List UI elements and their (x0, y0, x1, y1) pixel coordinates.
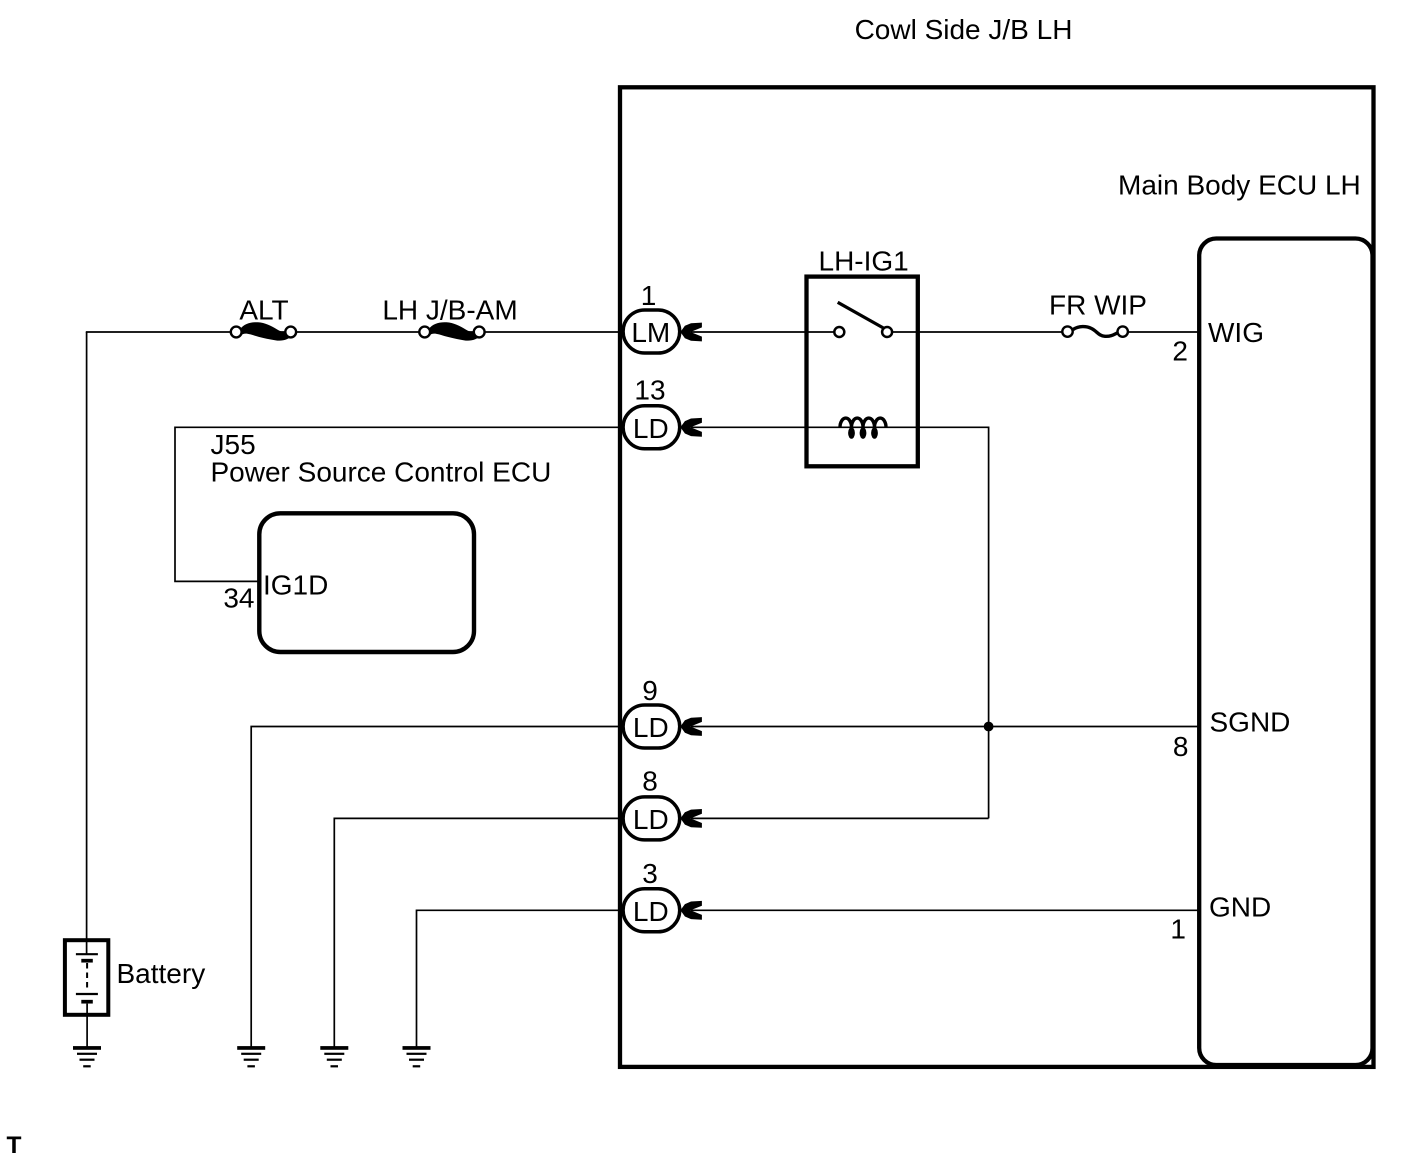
connector oval LD pin 9 (623, 705, 680, 748)
arrow into LD3 (680, 901, 702, 920)
wire: relay switch to FR WIP fuse (893, 331, 1063, 333)
svg-text:T: T (7, 1132, 22, 1159)
relay coil (840, 418, 886, 439)
arrow into LD9 (680, 717, 702, 736)
svg-text:GND: GND (1209, 891, 1271, 922)
svg-text:34: 34 (223, 583, 254, 614)
ECU box: Main Body ECU LH (1199, 239, 1372, 1066)
J55 ECU box IG1D (259, 513, 474, 652)
junction dot on SGND net (984, 722, 994, 732)
wire: battery positive vertical riser (86, 332, 88, 954)
relay LH-IG1 box (807, 277, 918, 467)
svg-text:ALT: ALT (239, 295, 288, 326)
svg-text:8: 8 (642, 766, 658, 797)
wire: LD pin 9 to ground (251, 727, 628, 1047)
svg-text:2: 2 (1172, 335, 1188, 366)
svg-text:8: 8 (1173, 731, 1189, 762)
relay switch contact left (834, 327, 844, 337)
wire: LD pin 3 to ground (417, 910, 629, 1046)
wire: LM pin 1 to relay switch contact (691, 331, 834, 333)
svg-text:LM: LM (631, 317, 670, 348)
relay switch blade (838, 302, 885, 328)
ground for LD9 wire (237, 1046, 265, 1067)
svg-text:13: 13 (634, 375, 665, 406)
svg-text:LH J/B-AM: LH J/B-AM (382, 295, 517, 326)
svg-text:Cowl Side J/B LH: Cowl Side J/B LH (855, 14, 1073, 45)
wire: main feed to LM pin 1 (86, 331, 628, 333)
wire: LD pin 8 to ground (334, 818, 628, 1046)
wire: FR WIP fuse to WIG pin 2 (1128, 331, 1199, 333)
svg-text:1: 1 (1170, 914, 1186, 945)
wire: LD pin 13 to relay coil and down to LD8 net (691, 427, 989, 818)
svg-text:FR WIP: FR WIP (1049, 290, 1147, 321)
svg-text:3: 3 (642, 858, 658, 889)
connector oval LD pin 8 (623, 797, 680, 840)
ground under battery (73, 1046, 101, 1067)
arrow into LD8 (680, 809, 702, 828)
svg-text:Battery: Battery (117, 958, 206, 989)
wire: SGND pin 8 to LD pin 9 (691, 726, 1199, 728)
fuse FR WIP (1062, 326, 1128, 336)
svg-text:Power Source Control ECU: Power Source Control ECU (211, 457, 552, 488)
svg-text:WIG: WIG (1208, 317, 1264, 348)
svg-text:LD: LD (633, 712, 669, 743)
fusible link ALT (231, 322, 296, 340)
svg-text:LD: LD (633, 804, 669, 835)
connector oval LD pin 3 (623, 889, 680, 932)
connector oval LD pin 13 (623, 406, 680, 449)
fusible link LH J/B-AM (419, 322, 484, 340)
relay switch contact right (882, 327, 892, 337)
wire: LD pin 8 branch to relay coil net (691, 817, 989, 819)
svg-text:LH-IG1: LH-IG1 (819, 246, 909, 277)
wire: LD pin 13 left to J55 IG1D pin 34 (175, 427, 628, 581)
connector oval LM pin 1 (623, 310, 680, 353)
arrow into LD13 (680, 418, 702, 437)
svg-text:SGND: SGND (1210, 707, 1291, 738)
svg-text:J55: J55 (211, 429, 256, 460)
arrow into LM (680, 323, 702, 342)
ground for LD3 wire (403, 1046, 431, 1067)
junction block box Cowl Side J/B LH (620, 87, 1374, 1067)
wire: GND pin 1 to LD pin 3 (691, 909, 1199, 911)
svg-text:9: 9 (642, 675, 658, 706)
ground for LD8 wire (320, 1046, 348, 1067)
svg-text:LD: LD (633, 896, 669, 927)
wire: battery negative to ground (86, 1004, 88, 1047)
svg-text:LD: LD (633, 413, 669, 444)
svg-text:Main Body ECU LH: Main Body ECU LH (1118, 170, 1361, 201)
svg-text:1: 1 (641, 280, 657, 311)
svg-text:IG1D: IG1D (263, 570, 328, 601)
battery (65, 940, 108, 1015)
